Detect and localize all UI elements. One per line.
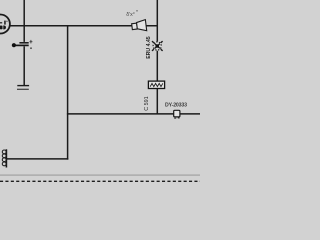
svg-text:δ'x°: δ'x° [126,12,135,18]
lamp H1 (dashed circle with X) [152,41,163,51]
connector J1 (circle cut by left edge) [0,15,10,34]
wire: top horizontal bus [9,25,158,27]
wire: right vertical (x=157) [156,0,158,115]
svg-text:DY-20333: DY-20333 [165,103,187,109]
tiny superscript dot of speaker label [136,10,137,11]
separator thin line [0,174,200,176]
wire: middle horizontal (x=67..200, y=114) [67,113,200,115]
wire: left vertical (x=24) capacitor-to-ground segment [23,46,25,85]
svg-text:C 591: C 591 [144,96,150,110]
dashed margin line [0,180,200,182]
diode D1 DY-20333 (square on middle wire) [174,110,180,118]
speaker LS1 (on top bus) [131,20,146,33]
wire: left vertical (x=24) top segment [23,0,25,42]
capacitor C1 small dot mark [30,47,32,49]
svg-text:ERU 4.45: ERU 4.45 [146,36,152,59]
wire: bottom-left horizontal to coil [7,158,69,160]
ground [17,86,29,90]
resistor R1 (box with zigzag) [148,81,164,88]
capacitor C1 (polarized, on left vertical wire) [12,43,29,48]
inductor L1 (coil at left edge) [2,149,6,167]
wire: center vertical (x=67.5) [67,25,69,160]
capacitor C1 polarity mark + [30,40,33,44]
